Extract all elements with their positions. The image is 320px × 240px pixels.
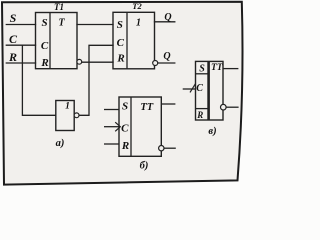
svg-text:б): б) xyxy=(140,161,149,172)
svg-text:S: S xyxy=(10,11,17,25)
wire S input to T1.S xyxy=(6,24,35,26)
inverter (1) xyxy=(56,101,79,131)
flip-flop TT (b) xyxy=(104,97,176,156)
wire Q-bar output stub (v) xyxy=(226,106,238,108)
wire inverter output up to T2.C xyxy=(79,45,113,115)
svg-text:S: S xyxy=(199,64,205,75)
wire S input stub (b) xyxy=(104,109,119,111)
flip-flop T2 xyxy=(113,1,158,69)
svg-text:S: S xyxy=(117,19,123,31)
wire C input stub (b) xyxy=(104,126,119,128)
wire R input stub (b) xyxy=(104,143,119,145)
svg-text:R: R xyxy=(121,140,129,152)
dynamic input slash (v) xyxy=(190,84,195,93)
svg-text:R: R xyxy=(40,57,48,69)
inversion bubble (v) xyxy=(221,104,227,110)
dynamic input arrow (b) xyxy=(115,122,120,131)
svg-text:R: R xyxy=(116,53,124,65)
svg-text:R: R xyxy=(196,110,203,120)
wire T1 output to T2.S xyxy=(77,24,113,26)
wire C input to T1.C xyxy=(6,44,35,46)
svg-text:TT: TT xyxy=(140,102,153,113)
svg-text:Q: Q xyxy=(164,12,171,23)
svg-text:TT: TT xyxy=(211,63,224,73)
wire C input stub (v) xyxy=(183,88,196,90)
svg-text:C: C xyxy=(196,83,203,94)
paper area inside frame xyxy=(2,2,243,185)
svg-text:1: 1 xyxy=(65,102,70,112)
T2 inversion bubble xyxy=(153,61,158,66)
flip-flop T1 xyxy=(36,2,82,69)
svg-text:R: R xyxy=(8,50,17,64)
inversion bubble (b) xyxy=(159,146,164,151)
svg-text:T1: T1 xyxy=(54,2,64,12)
wire C branch down to inverter input xyxy=(22,45,55,115)
svg-text:в): в) xyxy=(208,126,216,137)
T1 inversion bubble xyxy=(77,59,82,64)
svg-text:S: S xyxy=(122,101,128,113)
wire T2 Q output xyxy=(155,21,175,23)
wire T2 Q-bar output xyxy=(158,62,175,64)
svg-text:1: 1 xyxy=(136,18,141,29)
inverter output bubble xyxy=(74,113,79,118)
svg-text:C: C xyxy=(9,32,18,46)
wire Q output stub (v) xyxy=(223,68,238,70)
svg-text:C: C xyxy=(121,122,129,134)
svg-text:а): а) xyxy=(56,138,65,149)
svg-text:T: T xyxy=(58,18,65,29)
svg-text:Q: Q xyxy=(163,51,170,62)
svg-text:C: C xyxy=(41,40,49,52)
wire Q output stub (b) xyxy=(161,103,175,105)
wire R input to T1.R xyxy=(6,62,35,64)
flip-flop TT (v) xyxy=(183,61,239,120)
wire T1 inverted output to T2.R xyxy=(82,61,113,63)
svg-text:T2: T2 xyxy=(132,1,142,11)
wire Q-bar output stub (b) xyxy=(164,147,176,149)
svg-text:S: S xyxy=(41,17,47,29)
svg-text:C: C xyxy=(117,37,125,49)
